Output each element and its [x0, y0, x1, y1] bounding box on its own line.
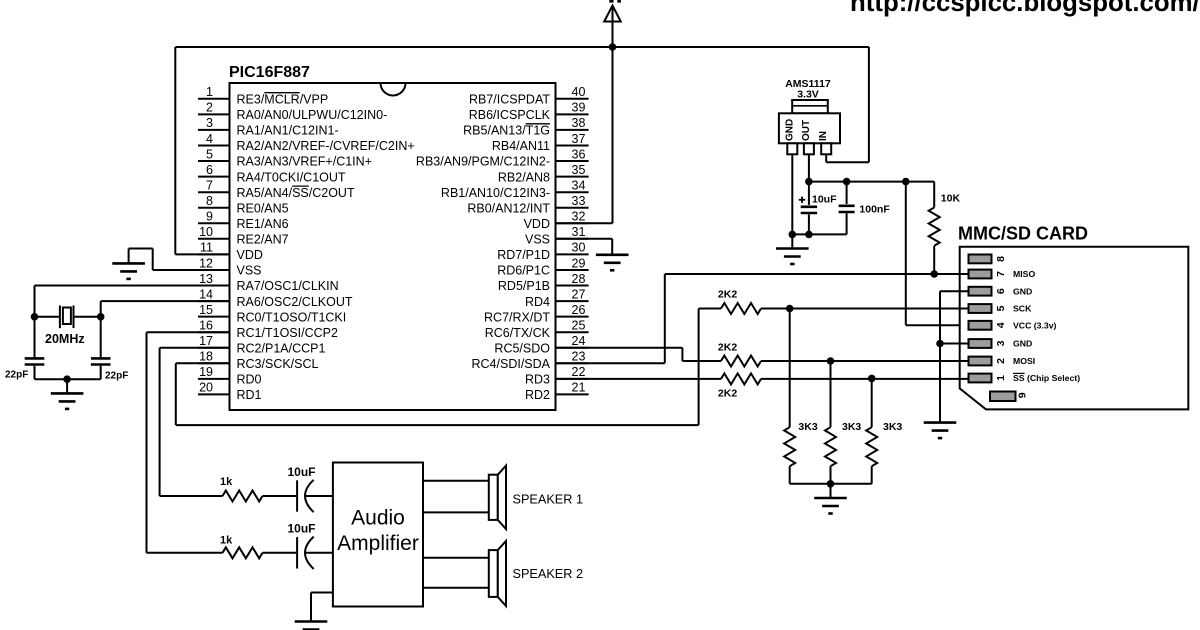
wire cap ground rail — [792, 233, 846, 235]
junction 3.3V rail / OUT — [805, 178, 813, 186]
ground at U1 pin 31 — [596, 255, 629, 270]
U1 pin 8 stub — [198, 207, 230, 209]
wire to C2 — [100, 317, 102, 358]
svg-text:11: 11 — [200, 241, 213, 255]
wire SCK to R2 — [699, 308, 721, 310]
wire U1 pin 14 OSC2 — [101, 300, 230, 302]
speaker LS2 — [489, 541, 506, 606]
U1 pin 17 stub — [198, 347, 230, 349]
svg-text:RB1/AN10/C12IN3-: RB1/AN10/C12IN3- — [441, 186, 550, 200]
wire R7 top — [871, 378, 873, 427]
wire SCK up — [698, 309, 700, 426]
wire U3 out2- — [423, 587, 489, 589]
svg-text:RB5/AN13/T1G: RB5/AN13/T1G — [463, 124, 550, 138]
wire card pin 3 GND — [940, 343, 969, 345]
crystal X1 20MHz — [60, 306, 74, 329]
wire R5 bottom — [789, 466, 791, 484]
U1 pin 35 stub — [556, 176, 589, 178]
svg-text:RE2/AN7: RE2/AN7 — [237, 233, 289, 247]
wire R7 bottom — [871, 466, 873, 484]
svg-text:8: 8 — [995, 256, 1007, 262]
svg-text:14: 14 — [199, 287, 213, 301]
svg-text:6: 6 — [995, 288, 1007, 294]
wire 5V rail right vertical — [868, 47, 870, 162]
svg-text:1: 1 — [995, 375, 1007, 381]
resistor R3 2K2 — [721, 356, 761, 367]
svg-text:4: 4 — [995, 322, 1007, 328]
svg-text:RE3/MCLR/VPP: RE3/MCLR/VPP — [237, 93, 329, 107]
svg-text:10uF: 10uF — [812, 194, 837, 206]
svg-text:RA2/AN2/VREF-/CVREF/C2IN+: RA2/AN2/VREF-/CVREF/C2IN+ — [237, 139, 415, 153]
wire U3 out1- — [423, 511, 489, 513]
U1 pin 29 stub — [556, 269, 589, 271]
svg-text:RD1: RD1 — [237, 388, 262, 402]
resistor R1 10K — [929, 208, 940, 246]
wire C1 to gnd rail — [34, 366, 36, 379]
svg-text:7: 7 — [206, 179, 213, 193]
svg-text:RB0/AN12/INT: RB0/AN12/INT — [467, 201, 550, 215]
U1 pin 32 stub — [556, 222, 589, 224]
svg-text:33: 33 — [572, 194, 586, 208]
svg-text:RB6/ICSPCLK: RB6/ICSPCLK — [469, 108, 551, 122]
J1 pad 8 — [969, 255, 992, 264]
U1 pin 38 stub — [556, 129, 589, 131]
svg-text:1: 1 — [206, 85, 213, 99]
U1 pin 4 stub — [198, 145, 230, 147]
wire R6 bottom — [830, 466, 832, 484]
svg-text:22pF: 22pF — [5, 370, 28, 381]
wire SDO step down — [681, 348, 683, 361]
wire card pin 6 GND — [940, 290, 969, 292]
wire to crystal X1 — [35, 316, 60, 318]
wire U1 pin 22 SS — [556, 378, 722, 380]
svg-text:8: 8 — [206, 194, 213, 208]
wire C6 to amplifier — [306, 552, 333, 554]
wire 3.3V rail — [809, 181, 934, 183]
svg-text:22: 22 — [572, 365, 586, 379]
svg-text:25: 25 — [572, 319, 586, 333]
U1 pin 10 stub — [198, 238, 230, 240]
wire 5V top rail — [175, 46, 869, 48]
svg-text:3: 3 — [995, 340, 1007, 346]
power symbol 5V arrow — [604, 0, 621, 47]
svg-text:SPEAKER 1: SPEAKER 1 — [513, 492, 584, 506]
svg-text:RD0: RD0 — [237, 373, 262, 387]
wire C4 top — [846, 182, 848, 204]
svg-text:36: 36 — [572, 147, 586, 161]
wire U1 pin 24 SDO — [556, 347, 683, 349]
U1 pin 22 stub — [556, 378, 589, 380]
wire OSC1 down — [34, 286, 36, 317]
wire PWM2 down — [146, 332, 148, 553]
wire PWM1 down — [159, 348, 161, 496]
svg-text:VSS: VSS — [525, 233, 550, 247]
wire C3 bottom — [808, 214, 810, 234]
capacitor C1 22pF — [25, 358, 45, 364]
svg-text:RD2: RD2 — [525, 388, 550, 402]
U1 pin 26 stub — [556, 316, 589, 318]
overline on SS (J1 pad 1 name) — [1013, 372, 1025, 374]
svg-text:GND: GND — [784, 119, 795, 141]
svg-text:RC2/P1A/CCP1: RC2/P1A/CCP1 — [237, 342, 326, 356]
svg-text:RC3/SCK/SCL: RC3/SCK/SCL — [237, 357, 319, 371]
svg-text:23: 23 — [572, 350, 586, 364]
wire U2 GND down — [791, 154, 793, 248]
U1 pin 21 stub — [556, 393, 589, 395]
svg-text:3K3: 3K3 — [883, 421, 902, 433]
svg-text:10K: 10K — [941, 193, 961, 205]
junction gnd rail — [789, 231, 797, 239]
U1 pin 19 stub — [198, 378, 230, 380]
J1 pad 4 — [969, 321, 992, 330]
svg-text:3.3V: 3.3V — [797, 89, 819, 101]
svg-text:RA1/AN1/C12IN1-: RA1/AN1/C12IN1- — [237, 124, 339, 138]
wire 3K3 ground rail — [790, 483, 872, 485]
svg-text:Amplifier: Amplifier — [337, 532, 419, 555]
wire U3 out2+ — [423, 557, 489, 559]
junction 3.3V rail / C4 — [843, 178, 851, 186]
wire C2 to gnd rail — [100, 366, 102, 379]
svg-text:RD7/P1D: RD7/P1D — [497, 248, 550, 262]
wire U1 pin 31 VSS — [556, 238, 613, 240]
junction C3 gnd — [805, 231, 813, 239]
wire VSS down — [611, 239, 613, 255]
U1 pin 16 stub — [198, 331, 230, 333]
wire PWM1 to R8 — [160, 495, 223, 497]
wire U2 IN down — [825, 154, 827, 162]
capacitor C3 10uF plates — [801, 207, 817, 213]
svg-text:Audio: Audio — [351, 507, 405, 530]
svg-text:RC0/T1OSO/T1CKI: RC0/T1OSO/T1CKI — [237, 310, 347, 324]
svg-text:MISO: MISO — [1013, 269, 1035, 279]
svg-text:MOSI: MOSI — [1013, 356, 1035, 366]
audio amplifier block U3 — [333, 463, 423, 607]
junction 3K3 ground — [827, 480, 835, 488]
U1 pin 28 stub — [556, 285, 589, 287]
U1 pin 12 stub — [198, 269, 230, 271]
U1 pin 14 stub — [198, 300, 230, 302]
svg-text:24: 24 — [572, 334, 586, 348]
U1 pin 3 stub — [198, 129, 230, 131]
wire U2 IN right — [826, 161, 869, 163]
U1 pin 9 stub — [198, 222, 230, 224]
svg-text:9: 9 — [206, 210, 213, 224]
resistor R2 2K2 — [721, 303, 761, 314]
svg-text:13: 13 — [199, 272, 213, 286]
wire C5 to amplifier — [306, 495, 333, 497]
U1 pin 34 stub — [556, 191, 589, 193]
svg-text:38: 38 — [572, 116, 586, 130]
U2 pin stub IN — [821, 143, 831, 154]
junction card GND — [936, 340, 944, 348]
ground at U3 — [295, 622, 328, 630]
svg-text:28: 28 — [572, 272, 586, 286]
svg-text:PIC16F887: PIC16F887 — [229, 64, 310, 81]
U1 pin 7 stub — [198, 191, 230, 193]
svg-text:39: 39 — [572, 101, 586, 115]
svg-text:SPEAKER 2: SPEAKER 2 — [513, 567, 584, 581]
J1 pad 7 — [969, 270, 992, 279]
resistor R6 3K3 — [825, 427, 836, 466]
svg-text:40: 40 — [572, 85, 586, 99]
svg-text:18: 18 — [199, 350, 213, 364]
svg-text:19: 19 — [199, 365, 213, 379]
junction MOSI / R6 — [827, 357, 835, 365]
svg-text:GND: GND — [1013, 286, 1032, 296]
wire U1 pin 18 SCK — [176, 362, 230, 364]
junction SS / R7 — [868, 375, 876, 383]
U1 pin 11 stub — [198, 253, 230, 255]
wire VDD left vertical — [174, 47, 176, 254]
wire U1 pin 17 PWM1 — [160, 347, 230, 349]
ground at card — [924, 423, 957, 439]
wire MOSI to card pin 2 — [761, 360, 969, 362]
svg-text:VDD: VDD — [524, 217, 550, 231]
node XTAL1 junction — [31, 313, 39, 321]
U1 pin 40 stub — [556, 98, 589, 100]
wire R5 top — [789, 309, 791, 428]
connector J1 MMC/SD card outline — [960, 247, 1189, 410]
wire SCK bottom run — [176, 424, 699, 426]
U1 pin 39 stub — [556, 113, 589, 115]
overline on T1G (U1 pin 38 name) — [526, 123, 550, 125]
U1 pin 20 stub — [198, 393, 230, 395]
U1 pin 33 stub — [556, 207, 589, 209]
svg-text:MMC/SD CARD: MMC/SD CARD — [958, 224, 1088, 244]
svg-text:RC4/SDI/SDA: RC4/SDI/SDA — [472, 357, 551, 371]
svg-text:31: 31 — [572, 225, 586, 239]
wire to card pin 4 — [906, 324, 969, 326]
J1 pad 9 — [990, 392, 1016, 402]
svg-text:2: 2 — [995, 358, 1007, 364]
svg-text:10: 10 — [199, 225, 213, 239]
svg-text:2K2: 2K2 — [718, 289, 737, 301]
wire MOSI to R3 — [682, 360, 721, 362]
wire U3 ground left — [311, 592, 333, 594]
wire R6 top — [830, 361, 832, 427]
svg-text:RC5/SDO: RC5/SDO — [494, 342, 550, 356]
svg-text:RD3: RD3 — [525, 373, 550, 387]
U1 pin 36 stub — [556, 160, 589, 162]
svg-text:3K3: 3K3 — [798, 421, 817, 433]
svg-text:RB4/AN11: RB4/AN11 — [492, 139, 550, 153]
node XTAL2 junction — [97, 313, 105, 321]
svg-text:SS (Chip Select): SS (Chip Select) — [1013, 373, 1080, 383]
wire to ground — [830, 484, 832, 498]
J1 pad 6 — [969, 287, 992, 296]
U1 pin 24 stub — [556, 347, 589, 349]
svg-text:RC1/T1OSI/CCP2: RC1/T1OSI/CCP2 — [237, 326, 338, 340]
wire 5V to U1 pin 32 — [612, 47, 614, 223]
ground at 3K3 resistors — [814, 498, 847, 514]
U1 pin-1 notch — [381, 83, 406, 96]
resistor R4 2K2 — [721, 373, 761, 384]
wire 3.3V to card VCC — [905, 182, 907, 326]
wire SCK to card pin 5 — [761, 308, 969, 310]
wire 10K bottom — [933, 246, 935, 274]
svg-text:RA0/AN0/ULPWU/C12IN0-: RA0/AN0/ULPWU/C12IN0- — [237, 108, 388, 122]
svg-text:3: 3 — [206, 116, 213, 130]
J1 pad 1 — [969, 374, 992, 383]
svg-text:6: 6 — [206, 163, 213, 177]
svg-text:VCC (3.3v): VCC (3.3v) — [1013, 321, 1057, 331]
junction R1 / MISO — [930, 270, 938, 278]
speaker LS1 — [489, 466, 506, 529]
svg-text:RB7/ICSPDAT: RB7/ICSPDAT — [469, 93, 550, 107]
svg-text:10uF: 10uF — [288, 522, 316, 536]
U1 pin 18 stub — [198, 362, 230, 364]
U1 pin 37 stub — [556, 145, 589, 147]
wire U1 pin 12 VSS — [153, 269, 230, 271]
svg-text:29: 29 — [572, 256, 586, 270]
svg-text:VSS: VSS — [237, 264, 262, 278]
wire crystal ground rail — [35, 378, 101, 380]
junction 5V rail / arrow — [609, 43, 617, 51]
svg-text:15: 15 — [199, 303, 213, 317]
wire MISO vertical — [664, 274, 666, 363]
U1 pin 25 stub — [556, 331, 589, 333]
svg-text:27: 27 — [572, 287, 586, 301]
svg-text:26: 26 — [572, 303, 586, 317]
svg-text:VDD: VDD — [237, 248, 263, 262]
U1 pin 5 stub — [198, 160, 230, 162]
junction SCK / R5 — [786, 305, 794, 313]
svg-text:GND: GND — [1013, 339, 1032, 349]
svg-text:2K2: 2K2 — [718, 388, 737, 400]
wire MISO horizontal — [665, 273, 969, 275]
ground at U2 — [776, 249, 809, 265]
svg-text:1k: 1k — [220, 535, 233, 547]
svg-text:2K2: 2K2 — [718, 342, 737, 354]
svg-text:RB2/AN8: RB2/AN8 — [498, 170, 550, 184]
svg-text:4: 4 — [206, 132, 213, 146]
svg-text:100nF: 100nF — [859, 204, 890, 216]
regulator U2 AMS1117 tab — [792, 100, 828, 113]
wire SCK down — [175, 363, 177, 425]
svg-text:37: 37 — [572, 132, 586, 146]
svg-text:34: 34 — [572, 179, 586, 193]
wire R8 to C5 — [263, 495, 297, 497]
capacitor C5 10uF — [297, 480, 314, 512]
resistor R9 1k — [223, 547, 263, 558]
overline on SS (U1 pin 7 name) — [292, 185, 309, 187]
wire VSS step down — [128, 249, 130, 264]
svg-text:RD5/P1B: RD5/P1B — [498, 279, 550, 293]
svg-text:IN: IN — [818, 131, 829, 141]
svg-text:RC6/TX/CK: RC6/TX/CK — [485, 326, 551, 340]
wire U3 ground down — [310, 593, 312, 622]
svg-text:RB3/AN9/PGM/C12IN2-: RB3/AN9/PGM/C12IN2- — [416, 155, 550, 169]
svg-text:RC7/RX/DT: RC7/RX/DT — [484, 310, 550, 324]
wire VSS step up — [152, 249, 154, 271]
svg-text:22pF: 22pF — [105, 371, 128, 382]
wire U1 pin 32 VDD — [556, 222, 613, 224]
svg-text:9: 9 — [1017, 392, 1029, 398]
svg-text:10uF: 10uF — [288, 465, 316, 479]
svg-text:7: 7 — [995, 271, 1007, 277]
wire MISO to U1 pin 23 — [556, 362, 665, 364]
ground at U1 pin 12 — [112, 263, 145, 279]
junction crystal ground — [63, 375, 71, 383]
wire U2 OUT down — [808, 154, 810, 205]
svg-text:20: 20 — [199, 381, 213, 395]
svg-text:SCK: SCK — [1013, 304, 1032, 314]
svg-text:21: 21 — [572, 381, 586, 395]
ground at crystal — [51, 393, 84, 409]
svg-text:RD4: RD4 — [525, 295, 550, 309]
microcontroller U1 PIC16F887 body — [230, 83, 556, 410]
svg-text:RA6/OSC2/CLKOUT: RA6/OSC2/CLKOUT — [237, 295, 353, 309]
svg-text:RA7/OSC1/CLKIN: RA7/OSC1/CLKIN — [237, 279, 339, 293]
resistor R7 3K3 — [866, 427, 877, 466]
svg-text:3K3: 3K3 — [842, 421, 861, 433]
svg-text:35: 35 — [572, 163, 586, 177]
U1 pin 30 stub — [556, 253, 589, 255]
U1 pin 15 stub — [198, 316, 230, 318]
svg-text:RA3/AN3/VREF+/C1IN+: RA3/AN3/VREF+/C1IN+ — [237, 155, 372, 169]
svg-text:http://ccspicc.blogspot.com/: http://ccspicc.blogspot.com/ — [850, 0, 1200, 17]
capacitor C6 10uF — [297, 537, 314, 569]
J1 pad 2 — [969, 357, 992, 366]
J1 pad 5 — [969, 304, 992, 313]
svg-text:2: 2 — [206, 101, 213, 115]
wire card GND down — [939, 291, 941, 422]
svg-text:5: 5 — [995, 305, 1007, 311]
svg-text:RA5/AN4/SS/C2OUT: RA5/AN4/SS/C2OUT — [237, 186, 355, 200]
svg-text:1k: 1k — [220, 476, 233, 488]
wire U3 out1+ — [423, 480, 489, 482]
capacitor C2 22pF — [91, 358, 111, 364]
svg-text:RE1/AN6: RE1/AN6 — [237, 217, 289, 231]
junction 3.3V rail / VCC card — [902, 178, 910, 186]
wire C4 bottom — [846, 213, 848, 234]
U1 pin 6 stub — [198, 176, 230, 178]
resistor R5 3K3 — [784, 427, 795, 466]
capacitor C4 100nF plates — [839, 206, 855, 212]
svg-text:RD6/P1C: RD6/P1C — [497, 264, 550, 278]
wire R9 to C6 — [263, 552, 297, 554]
U1 pin 31 stub — [556, 238, 589, 240]
svg-text:RE0/AN5: RE0/AN5 — [237, 201, 289, 215]
U1 pin 23 stub — [556, 362, 589, 364]
U2 pin stub GND — [787, 143, 797, 154]
wire PWM2 to R9 — [147, 552, 223, 554]
wire VSS step left — [129, 248, 153, 250]
U1 pin 13 stub — [198, 285, 230, 287]
svg-text:30: 30 — [572, 241, 586, 255]
svg-text:17: 17 — [199, 334, 213, 348]
svg-text:16: 16 — [199, 319, 213, 333]
wire to ground — [66, 379, 68, 393]
wire from crystal X1 — [74, 316, 101, 318]
C3 plus sign — [799, 197, 805, 203]
svg-text:12: 12 — [199, 256, 213, 270]
wire 10K top — [933, 182, 935, 208]
wire to U1 pin 11 VDD — [175, 253, 229, 255]
U1 pin 27 stub — [556, 300, 589, 302]
svg-text:20MHz: 20MHz — [45, 332, 85, 346]
wire U1 pin 13 OSC1 — [35, 285, 230, 287]
wire U1 pin 16 PWM2 — [147, 331, 230, 333]
regulator U2 AMS1117 body — [779, 113, 840, 143]
svg-text:OUT: OUT — [801, 120, 812, 141]
wire OSC2 down — [100, 301, 102, 317]
wire to C1 — [34, 317, 36, 358]
J1 pad 3 — [969, 339, 992, 348]
U1 pin 2 stub — [198, 113, 230, 115]
svg-text:32: 32 — [572, 210, 586, 224]
U1 pin 1 stub — [198, 98, 230, 100]
